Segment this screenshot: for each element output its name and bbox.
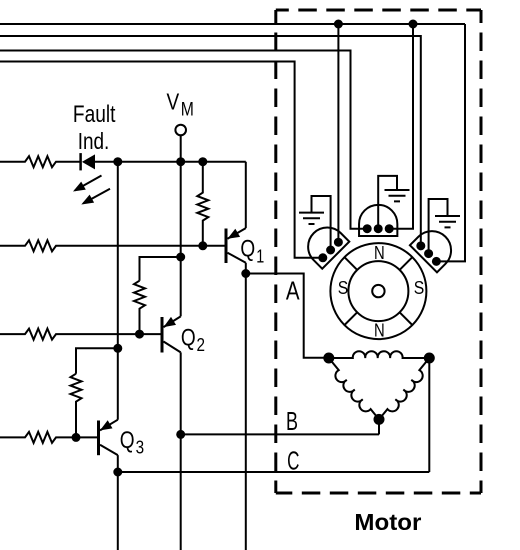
wire: hall bus 2: [0, 36, 421, 246]
ground symbol (right sensor): [435, 216, 460, 227]
hall sensor H2 (middle): [359, 205, 397, 236]
wire: phase B: [181, 433, 379, 435]
resistor R1 (fault input): [0, 156, 81, 167]
wire: Q1 collector column: [245, 263, 247, 550]
transistor Q3 bar: [97, 421, 100, 456]
wire: hall bus 3: [0, 51, 367, 229]
svg-text:S: S: [414, 277, 425, 298]
svg-text:Q: Q: [120, 427, 135, 454]
wire: phase A: [246, 274, 329, 358]
motor enclosure dashed box: [276, 9, 481, 12]
hall sensor H1 (left): [300, 220, 349, 269]
svg-text:Q: Q: [181, 325, 196, 352]
wire: bus 1 right drop to right sensor pin 3: [436, 24, 465, 261]
LED emission arrow 1: [75, 176, 102, 191]
svg-text:N: N: [374, 243, 385, 263]
svg-text:2: 2: [197, 335, 206, 355]
rotor pole divider SW: [345, 312, 358, 325]
wire: Q2 collector column: [180, 352, 182, 550]
node: winding junction C: [425, 354, 434, 363]
svg-text:A: A: [286, 275, 300, 305]
resistor R4 (Q3 base input): [0, 432, 97, 443]
node: Q2 emitter branch: [177, 254, 184, 261]
wire: Q1 emitter feed: [245, 162, 247, 228]
ground symbol (middle sensor): [385, 190, 410, 201]
LED emission arrow 2: [83, 189, 110, 204]
wire: right sensor pin 2 to ground: [429, 199, 448, 254]
wire: VM rail: [95, 161, 246, 163]
rotor shaft: [372, 285, 384, 297]
svg-text:B: B: [286, 406, 298, 436]
node: Q3 base junction: [73, 434, 80, 441]
rotor pole divider NE: [400, 257, 413, 270]
transistor Q2 bar: [161, 317, 164, 353]
wire: phase C: [118, 471, 430, 473]
resistor R5 (Q1 base pull-up): [197, 162, 208, 246]
winding L2 (left side): [329, 358, 379, 419]
wire: Q3 emitter column: [117, 162, 119, 420]
wire: Q3 collector column: [117, 455, 119, 550]
wire: middle sensor pin 2 to ground: [378, 176, 397, 229]
svg-text:N: N: [374, 321, 385, 341]
node: phase C tap: [114, 469, 121, 476]
node: winding junction A: [324, 354, 333, 363]
svg-text:S: S: [338, 277, 349, 298]
node: phase A tap: [242, 270, 249, 277]
svg-text:Motor: Motor: [354, 509, 421, 535]
resistor R7 (Q3 base pull-up): [71, 374, 82, 438]
node: fault rail to Q3 emitter column: [114, 158, 121, 165]
node: bus 1 tap for middle sensor: [410, 21, 417, 28]
rotor pole divider SE: [400, 312, 413, 325]
node: Q1 base junction: [199, 242, 206, 249]
rotor pole divider NW: [345, 257, 358, 270]
wire: winding B drop: [378, 419, 380, 434]
svg-text:Fault: Fault: [73, 101, 116, 128]
node: winding junction B: [375, 415, 384, 424]
svg-text:M: M: [181, 99, 194, 120]
LED D1 fault indicator: triangle: [82, 154, 95, 169]
resistor R2 (Q1 base input): [0, 240, 225, 251]
transistor Q3 collector: [100, 445, 118, 455]
wire: drop to middle sensor pin 3: [389, 24, 413, 229]
svg-text:Q: Q: [240, 236, 255, 263]
ground symbol (left sensor): [299, 213, 324, 224]
node: bus 1 tap for left sensor: [335, 21, 342, 28]
node: R5 top tap: [199, 158, 206, 165]
wire: winding C drop: [428, 358, 430, 472]
winding L1 (top side): [329, 351, 430, 358]
resistor R3 (Q2 base input): [0, 329, 161, 340]
rotor outer ring: [330, 243, 426, 339]
svg-text:Ind.: Ind.: [78, 128, 110, 154]
wire: branch to R7: [76, 348, 118, 373]
transistor Q2 emitter: [164, 316, 181, 327]
node: Q3 emitter branch: [114, 345, 121, 352]
svg-text:V: V: [167, 89, 180, 115]
transistor Q1 bar: [225, 229, 228, 264]
svg-text:1: 1: [256, 247, 264, 267]
node: VM tap: [177, 158, 184, 165]
hall sensor H3 (right): [410, 223, 459, 272]
transistor Q2 collector: [164, 342, 181, 353]
wire: branch to R6: [140, 257, 181, 281]
wire: hall bus 4: [0, 62, 323, 258]
rotor inner ring: [348, 261, 408, 321]
transistor Q1 emitter: [228, 228, 246, 239]
node: phase B tap: [177, 431, 184, 438]
node: Q2 base junction: [136, 331, 143, 338]
wire: VM column down to Q2 emitter: [180, 135, 182, 316]
LED D1 fault indicator: cathode bar: [79, 153, 82, 170]
transistor Q3 emitter: [100, 420, 118, 431]
wire: hall bus 1 (top horizontal): [0, 23, 465, 25]
svg-text:C: C: [287, 446, 299, 476]
wire: left sensor pin 2 to ground: [312, 196, 331, 250]
winding L3 (right side): [379, 358, 429, 419]
transistor Q1 collector: [228, 253, 246, 263]
svg-text:3: 3: [136, 437, 145, 457]
wire: drop to left sensor pin 1: [337, 24, 339, 242]
VM supply terminal: [175, 125, 186, 136]
resistor R6 (Q2 base pull-up): [134, 281, 145, 334]
